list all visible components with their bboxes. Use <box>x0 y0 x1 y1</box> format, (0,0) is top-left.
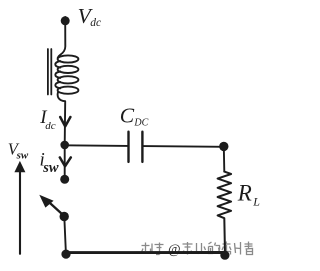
bottom left junction dot <box>61 250 70 259</box>
resistor R_L zigzag <box>218 172 232 254</box>
bottom rail wire <box>66 251 225 254</box>
wire capacitor to node B <box>144 145 224 148</box>
wire node A down to switch terminal <box>64 145 66 179</box>
svg-text:dc: dc <box>90 17 101 29</box>
node B junction dot <box>219 142 228 151</box>
arrow shaft v_sw <box>19 172 21 254</box>
arrowhead v_sw <box>14 161 25 172</box>
svg-text:C: C <box>120 104 135 128</box>
node V_dc terminal dot <box>61 16 70 25</box>
svg-text:dc: dc <box>45 120 56 132</box>
wire node A to capacitor <box>65 144 128 147</box>
svg-text:@: @ <box>168 242 180 257</box>
svg-text:sw: sw <box>16 149 29 161</box>
svg-text:DC: DC <box>133 118 148 129</box>
switch S1 blade <box>50 203 65 216</box>
node A junction dot <box>60 141 69 150</box>
watermark zhihu text <box>141 243 164 255</box>
capacitor C_DC plates <box>129 132 143 162</box>
switch pivot dot <box>59 212 68 221</box>
bottom right junction dot <box>220 251 229 260</box>
current arrow I_dc <box>60 117 70 126</box>
svg-text:sw: sw <box>42 160 59 176</box>
wire switch pivot to bottom rail <box>64 217 66 254</box>
svg-text:L: L <box>252 195 260 209</box>
current arrow i_sw <box>60 157 71 166</box>
switch blade arrowhead <box>39 195 53 208</box>
inductor L1 core bars <box>48 49 51 95</box>
switch top terminal dot <box>60 175 69 184</box>
svg-text:R: R <box>237 180 252 205</box>
wire top feed and inductor L1 coil <box>55 17 78 145</box>
wire node B down to resistor <box>223 146 226 171</box>
